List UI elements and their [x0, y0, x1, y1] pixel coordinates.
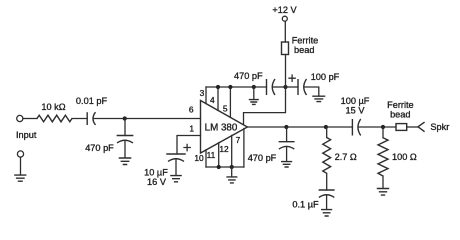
svg-text:15 V: 15 V	[346, 106, 366, 116]
capacitor 0.01 pF input coupling	[87, 112, 95, 125]
wire node to 100 pF	[286, 86, 299, 88]
plus sign supply node	[289, 75, 295, 81]
wire junction to 2.7 ohm	[326, 127, 328, 138]
node supply junction	[283, 85, 287, 89]
op-amp U1 LM380	[201, 101, 248, 154]
svg-text:0.1 µF: 0.1 µF	[292, 199, 319, 209]
wire ground tap	[253, 87, 255, 99]
pin label 6	[189, 105, 194, 115]
junction pin 4	[216, 85, 220, 89]
wire node to pin 14	[244, 87, 286, 125]
pin label 1	[189, 124, 194, 134]
wire junction to 470 pF out	[286, 127, 288, 142]
svg-text:10 kΩ: 10 kΩ	[41, 102, 65, 112]
wire terminal to ground	[20, 157, 22, 175]
svg-text:100 µF: 100 µF	[341, 96, 370, 106]
svg-text:470 pF: 470 pF	[85, 143, 114, 153]
wire 0.1 uF to ground	[326, 195, 328, 209]
resistor 2.7 Ohm	[323, 138, 331, 174]
wire 100 ohm to ground	[382, 176, 384, 188]
pin label 12	[219, 144, 229, 154]
wire 2.7 ohm to 0.1 uF	[326, 173, 328, 190]
wire 470 pF out to ground	[286, 147, 288, 162]
junction 2.7 ohm	[324, 125, 328, 129]
label Spkr	[430, 122, 449, 132]
junction pin 11	[217, 165, 221, 169]
wire 100 pF to ground	[304, 87, 319, 96]
label 0.1 uF	[292, 199, 319, 209]
svg-text:LM 380: LM 380	[205, 122, 238, 133]
capacitor 470 pF top	[267, 79, 276, 95]
wire 470 pF to supply node	[273, 86, 286, 88]
ground top rail	[249, 100, 259, 105]
ground 0.1 uF	[321, 210, 332, 216]
svg-text:100 Ω: 100 Ω	[392, 152, 417, 162]
svg-text:Input: Input	[16, 130, 37, 140]
pin label 5	[223, 103, 228, 113]
svg-text:5: 5	[223, 103, 228, 113]
pin 5 stub	[229, 87, 231, 117]
wire input to resistor	[23, 118, 37, 120]
junction node input	[123, 116, 127, 120]
svg-text:1: 1	[189, 124, 194, 134]
ground terminal input	[17, 151, 23, 157]
ground input terminal	[14, 175, 26, 181]
ground 470 pF output	[281, 162, 292, 167]
ferrite bead output	[396, 124, 407, 131]
junction 100 ohm	[381, 125, 385, 129]
terminal +12 V	[282, 16, 287, 21]
label 470 pF output	[248, 153, 277, 163]
svg-text:10 µF: 10 µF	[144, 167, 168, 177]
label 10 kOhm	[41, 102, 65, 112]
ground 10 uF	[170, 176, 182, 182]
pin label 4	[210, 95, 215, 105]
wire capacitor to ground	[124, 142, 126, 158]
label Input	[16, 130, 37, 140]
wire node down to capacitor	[124, 119, 126, 136]
pin label 11	[207, 150, 216, 160]
ground input capacitor	[119, 158, 132, 165]
bottom pin 7 stub	[243, 129, 245, 168]
wire resistor to capacitor	[72, 118, 87, 120]
bottom rail wire	[206, 166, 244, 168]
svg-text:0.01 pF: 0.01 pF	[76, 96, 108, 106]
svg-text:11: 11	[207, 150, 216, 160]
plus sign 10 uF	[184, 144, 190, 150]
pin label 10	[194, 153, 204, 163]
wire +12V to ferrite bead	[284, 21, 286, 42]
capacitor 100 uF 15 V	[352, 119, 360, 136]
ground 100 pF	[312, 96, 325, 101]
capacitor 10 uF 16 V	[166, 154, 185, 161]
wire bottom rail to ground	[231, 167, 233, 177]
capacitor 470 pF input	[117, 136, 134, 143]
capacitor 0.1 uF	[319, 190, 335, 197]
top rail wire	[206, 86, 267, 88]
input terminal	[17, 115, 23, 121]
wire pin 1	[177, 136, 201, 155]
wire ferrite bead to node	[285, 55, 287, 88]
svg-text:10: 10	[194, 153, 204, 163]
pin 3 stub	[205, 87, 207, 104]
svg-text:16 V: 16 V	[147, 177, 167, 187]
bottom pin 10 stub	[205, 150, 207, 167]
wire capacitor to pin 6	[93, 118, 200, 120]
svg-text:Spkr: Spkr	[430, 122, 449, 132]
resistor 10 kOhm	[37, 115, 72, 122]
svg-text:+12 V: +12 V	[272, 5, 297, 15]
ferrite bead top	[282, 42, 289, 55]
bottom pin 11 stub	[218, 143, 220, 167]
label 470 pF input	[85, 143, 114, 153]
wire 100 uF to ferrite bead	[359, 126, 397, 128]
svg-text:470 pF: 470 pF	[234, 71, 263, 81]
wire 10 uF to ground	[175, 160, 177, 176]
label 100 uF 15 V	[341, 96, 370, 116]
pin label 3	[200, 88, 205, 98]
wire ferrite bead to speaker	[407, 126, 418, 128]
label 100 Ohm	[392, 152, 417, 162]
pin 4 stub	[217, 87, 219, 110]
ground 100 ohm	[377, 189, 389, 196]
svg-text:2.7 Ω: 2.7 Ω	[335, 152, 357, 162]
speaker connector chevron	[418, 122, 425, 132]
label Ferrite bead top	[292, 35, 319, 54]
svg-text:100 pF: 100 pF	[311, 72, 340, 82]
label 0.01 pF	[76, 96, 108, 106]
label LM 380	[205, 122, 238, 133]
ground bottom rail	[226, 177, 237, 183]
svg-text:bead: bead	[390, 109, 410, 119]
junction pin 12	[230, 165, 234, 169]
resistor 100 Ohm	[378, 138, 388, 176]
label +12 V	[272, 5, 297, 15]
junction ground tap	[252, 85, 256, 89]
svg-text:6: 6	[189, 105, 194, 115]
label 100 pF	[311, 72, 340, 82]
capacitor 100 pF	[298, 79, 307, 95]
label 2.7 Ohm	[335, 152, 357, 162]
pin label 7	[236, 135, 241, 145]
svg-text:12: 12	[219, 144, 229, 154]
svg-text:3: 3	[200, 88, 205, 98]
output rail wire	[247, 126, 352, 128]
svg-text:4: 4	[210, 95, 215, 105]
label 470 pF top	[234, 71, 263, 81]
svg-text:470 pF: 470 pF	[248, 153, 277, 163]
svg-text:7: 7	[236, 135, 241, 145]
junction output capacitor	[284, 125, 288, 129]
bottom pin 12 stub	[231, 135, 233, 167]
wire junction to 100 ohm	[382, 127, 384, 138]
capacitor 470 pF output	[279, 142, 295, 149]
label 10 uF 16 V	[144, 167, 168, 187]
junction pin 5	[228, 85, 232, 89]
svg-text:bead: bead	[294, 45, 314, 55]
label Ferrite bead output	[387, 100, 414, 119]
